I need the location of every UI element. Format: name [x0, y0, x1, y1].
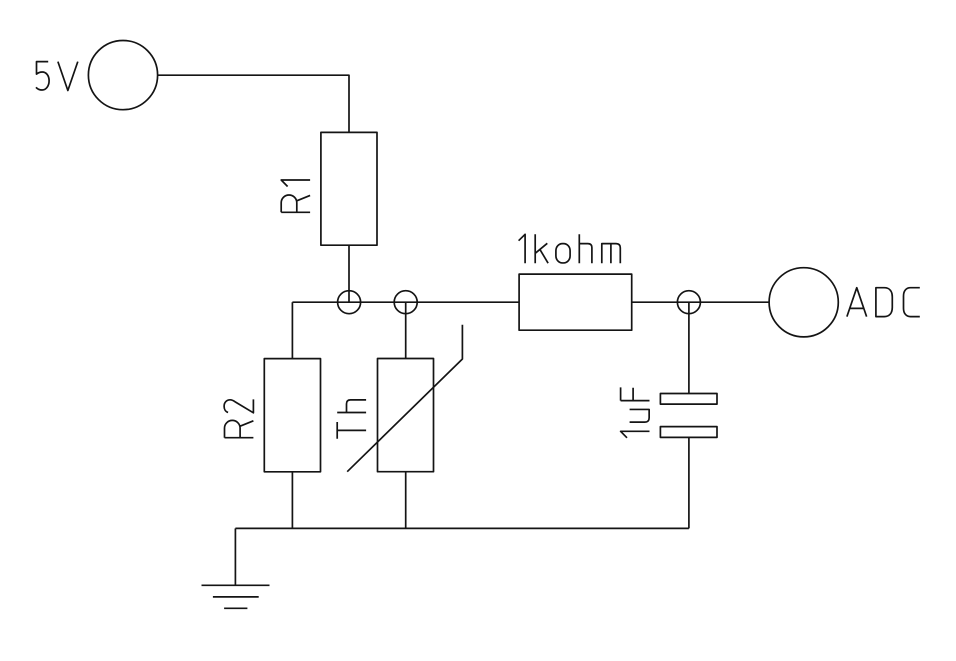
resistor R1 — [321, 132, 377, 245]
capacitor C1 plate 2 — [660, 427, 717, 438]
wire R2 bottom — [291, 472, 293, 529]
resistor 1kohm — [519, 274, 632, 330]
ground stem — [234, 528, 236, 585]
resistor R2 — [264, 359, 320, 472]
node B — [394, 291, 417, 314]
ground bar 3 — [224, 607, 247, 609]
wire node B to Th — [405, 302, 407, 358]
supply terminal 5V — [88, 41, 157, 110]
wire down to R2 — [291, 302, 293, 358]
wire main horizontal — [292, 301, 519, 303]
label R2 — [224, 399, 253, 437]
wire node C down to capacitor — [688, 302, 690, 393]
node C — [677, 291, 700, 314]
wire 1kohm to ADC — [632, 301, 770, 303]
label Th — [337, 400, 366, 439]
label ADC — [847, 288, 920, 317]
thermistor Th diagonal — [347, 325, 462, 472]
node A — [338, 291, 361, 314]
wire R1 bottom to node A — [348, 245, 350, 302]
label 1kohm — [519, 234, 621, 263]
wire Th bottom — [405, 472, 407, 529]
thermistor Th body — [378, 359, 434, 472]
ground bar 2 — [213, 596, 259, 598]
wire capacitor bottom — [688, 437, 690, 528]
label R1 — [281, 180, 310, 212]
label 5V — [36, 62, 78, 91]
wire bottom rail — [235, 527, 689, 529]
capacitor C1 plate 1 — [660, 394, 717, 405]
wire from 5V to R1 — [158, 75, 349, 132]
ground bar 1 — [202, 584, 270, 586]
terminal ADC — [769, 268, 838, 337]
label 1uF — [621, 387, 650, 437]
